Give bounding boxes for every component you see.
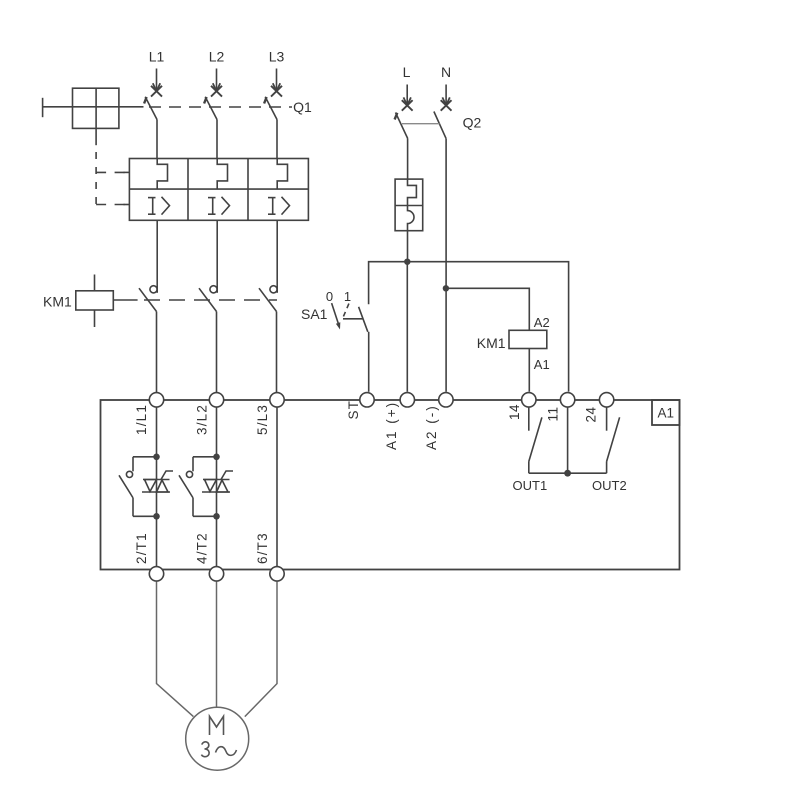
- svg-text:OUT2: OUT2: [592, 478, 627, 493]
- svg-text:A1: A1: [657, 406, 674, 421]
- svg-text:6/T3: 6/T3: [255, 532, 270, 564]
- svg-text:1: 1: [344, 289, 351, 304]
- svg-text:14: 14: [507, 404, 522, 420]
- svg-text:L: L: [403, 64, 411, 80]
- svg-text:0: 0: [326, 289, 333, 304]
- svg-text:24: 24: [584, 406, 599, 422]
- svg-text:OUT1: OUT1: [513, 478, 548, 493]
- svg-text:N: N: [441, 64, 451, 80]
- svg-text:A2: A2: [534, 315, 550, 330]
- svg-text:KM1: KM1: [477, 335, 506, 351]
- svg-text:1/L1: 1/L1: [134, 404, 149, 435]
- svg-text:L3: L3: [269, 49, 285, 65]
- svg-text:SA1: SA1: [301, 306, 328, 322]
- svg-text:3/L2: 3/L2: [194, 404, 209, 435]
- svg-text:ST: ST: [346, 400, 361, 420]
- svg-text:5/L3: 5/L3: [255, 404, 270, 435]
- svg-text:A1 (+): A1 (+): [384, 401, 399, 450]
- svg-text:4/T2: 4/T2: [194, 532, 209, 564]
- svg-text:L1: L1: [149, 49, 165, 65]
- svg-text:2/T1: 2/T1: [134, 532, 149, 564]
- svg-text:Q2: Q2: [463, 115, 482, 131]
- svg-text:L2: L2: [209, 49, 225, 65]
- svg-text:A2 (-): A2 (-): [424, 404, 439, 450]
- svg-text:Q1: Q1: [293, 99, 312, 115]
- svg-text:KM1: KM1: [43, 294, 72, 310]
- svg-text:A1: A1: [534, 357, 550, 372]
- svg-text:11: 11: [546, 406, 561, 421]
